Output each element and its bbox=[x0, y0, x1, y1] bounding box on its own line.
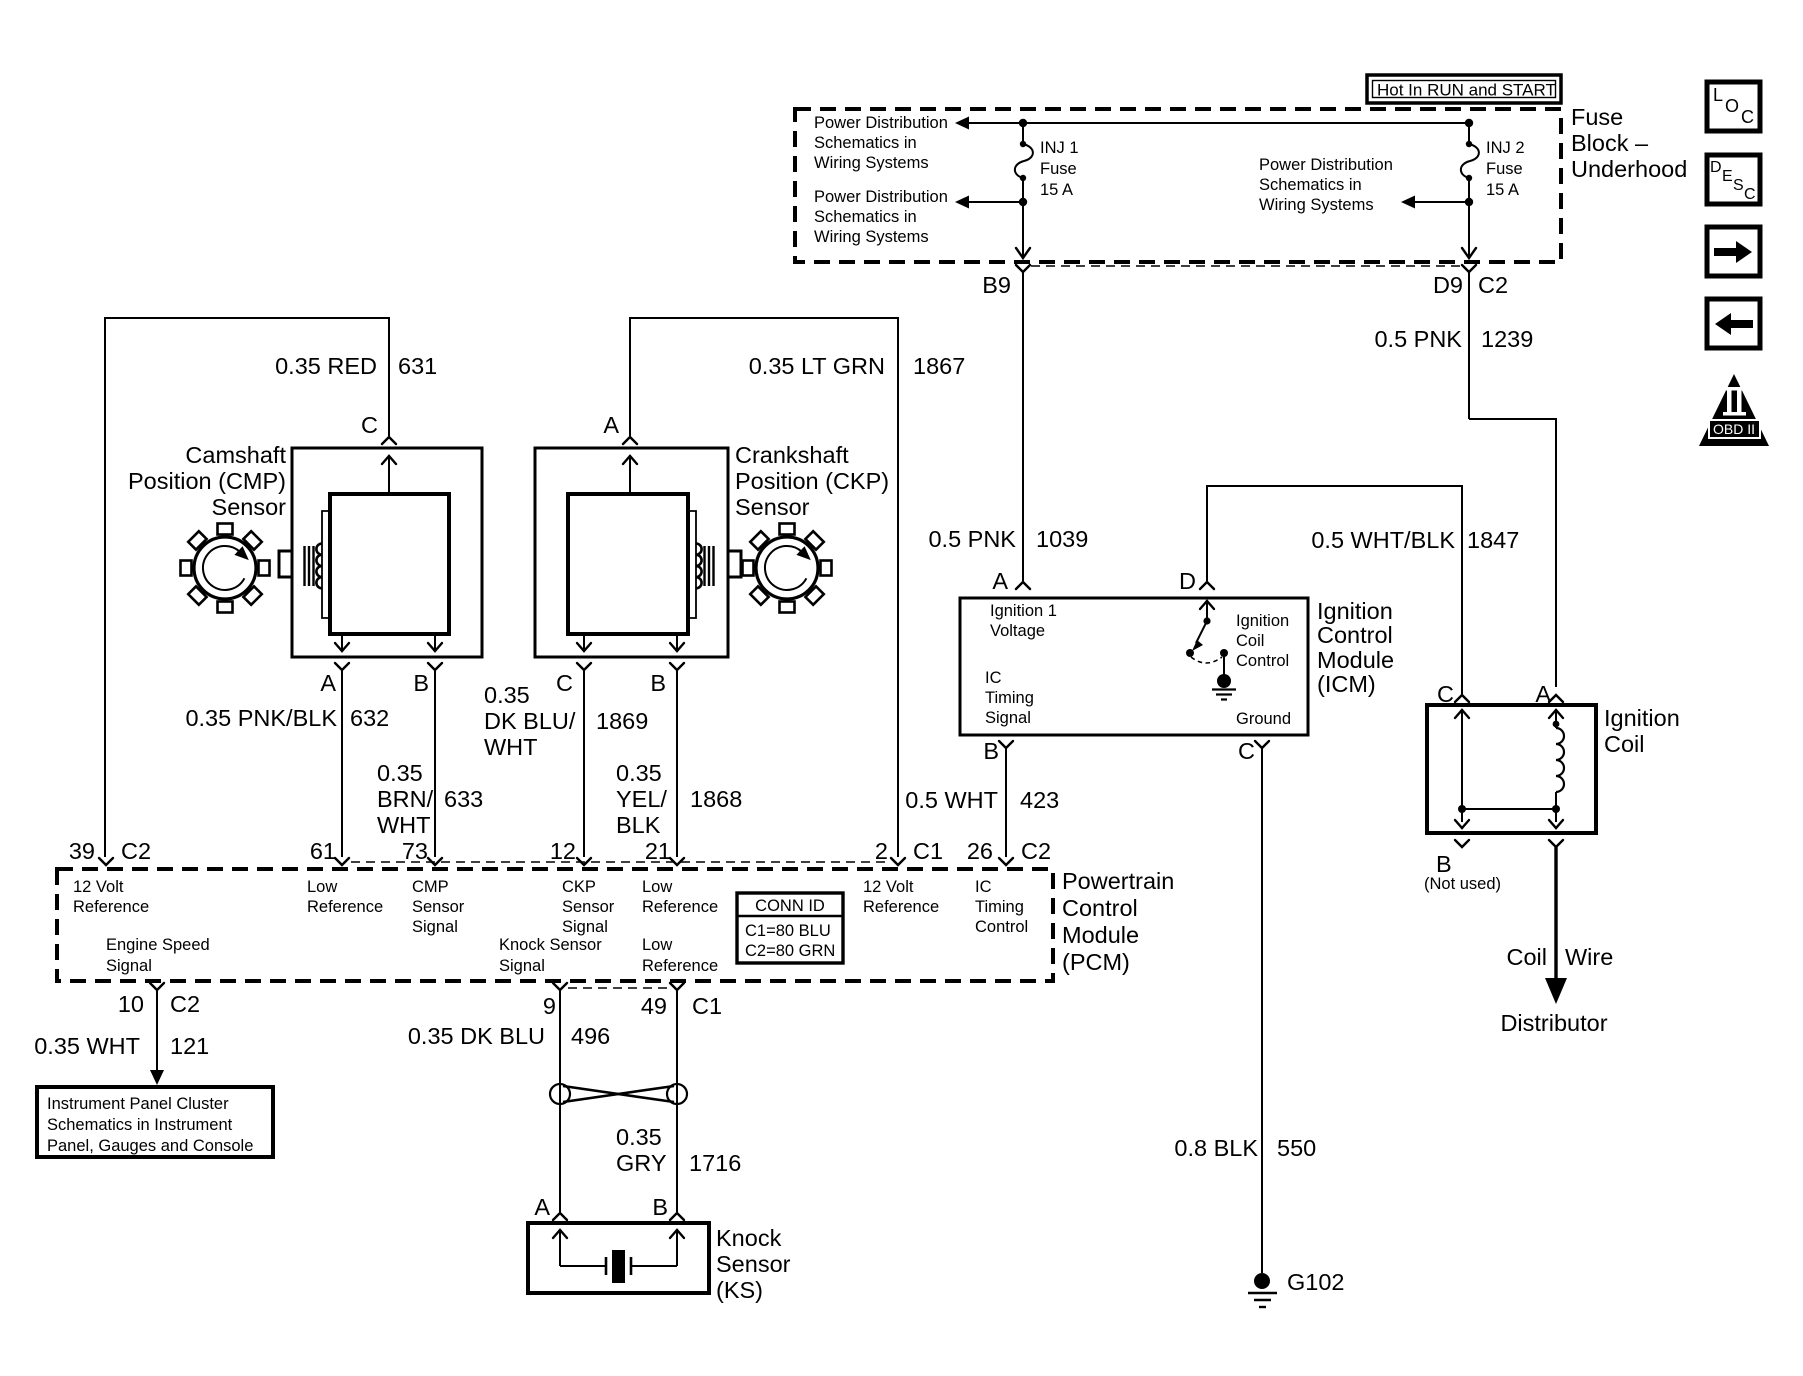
label Crankshaft Position CKP Sensor bbox=[735, 442, 889, 520]
connector B below CMP bbox=[413, 663, 442, 696]
svg-text:E: E bbox=[1722, 168, 1733, 185]
svg-text:Hot In RUN and START: Hot In RUN and START bbox=[1377, 81, 1556, 100]
svg-text:C2: C2 bbox=[170, 991, 200, 1017]
svg-text:L: L bbox=[1713, 85, 1723, 105]
svg-text:DK BLU/: DK BLU/ bbox=[484, 708, 576, 734]
pin 10 C2 below PCM bbox=[118, 983, 200, 1017]
svg-text:(Not used): (Not used) bbox=[1424, 875, 1501, 893]
connector A of CKP bbox=[603, 412, 637, 444]
wire 633 BRN/WHT CMP B to PCM 73 bbox=[377, 670, 483, 857]
svg-text:(PCM): (PCM) bbox=[1062, 949, 1130, 975]
svg-text:Low: Low bbox=[642, 936, 672, 954]
svg-text:C: C bbox=[361, 412, 378, 438]
text PCM CMP Sensor Signal bbox=[412, 878, 465, 936]
connector C below CKP bbox=[556, 663, 591, 696]
svg-text:0.5 PNK: 0.5 PNK bbox=[1374, 326, 1462, 352]
svg-text:Fuse: Fuse bbox=[1486, 160, 1523, 178]
svg-text:Knock: Knock bbox=[716, 1225, 782, 1251]
svg-text:0.35 DK BLU: 0.35 DK BLU bbox=[408, 1023, 545, 1049]
CMP pickup coil bbox=[305, 511, 331, 618]
connector C of ignition coil bbox=[1437, 681, 1469, 707]
svg-text:Schematics in: Schematics in bbox=[1259, 176, 1362, 194]
text PCM CKP Sensor Signal bbox=[562, 878, 615, 936]
svg-text:Power Distribution: Power Distribution bbox=[814, 188, 948, 206]
ICM internal ground bbox=[1212, 674, 1236, 700]
svg-text:CONN ID: CONN ID bbox=[755, 897, 825, 915]
text ICM Ignition 1 Voltage bbox=[990, 602, 1057, 640]
label box Hot In RUN and START bbox=[1367, 75, 1561, 103]
svg-text:CMP: CMP bbox=[412, 878, 449, 896]
CKP reluctor gear icon bbox=[743, 524, 832, 613]
svg-text:1847: 1847 bbox=[1467, 527, 1519, 553]
svg-text:Sensor: Sensor bbox=[562, 898, 615, 916]
svg-text:A: A bbox=[320, 670, 336, 696]
CKP sensor outer box bbox=[535, 448, 728, 657]
CONN ID table bbox=[737, 893, 843, 963]
svg-text:39: 39 bbox=[69, 838, 95, 864]
svg-text:Wiring Systems: Wiring Systems bbox=[814, 154, 929, 172]
svg-text:Reference: Reference bbox=[863, 898, 939, 916]
wire 1039 PNK B9 to ICM A bbox=[928, 272, 1088, 581]
CMP connector tab bbox=[279, 551, 292, 577]
text power distribution middle bbox=[1259, 156, 1393, 214]
svg-text:631: 631 bbox=[398, 353, 437, 379]
svg-text:21: 21 bbox=[645, 838, 671, 864]
text PCM IC Timing Control bbox=[975, 878, 1028, 936]
svg-text:Signal: Signal bbox=[499, 957, 545, 975]
svg-text:CKP: CKP bbox=[562, 878, 596, 896]
svg-text:IC: IC bbox=[985, 669, 1002, 687]
wire 1847 WHT/BLK ICM D to coil C bbox=[1207, 486, 1519, 694]
svg-text:Wiring Systems: Wiring Systems bbox=[814, 228, 929, 246]
svg-text:49: 49 bbox=[641, 993, 667, 1019]
coil wire to distributor bbox=[1500, 840, 1613, 1036]
svg-text:Crankshaft: Crankshaft bbox=[735, 442, 849, 468]
svg-text:C2: C2 bbox=[121, 838, 151, 864]
svg-text:61: 61 bbox=[310, 838, 336, 864]
svg-text:Schematics in: Schematics in bbox=[814, 134, 917, 152]
svg-text:C: C bbox=[1744, 186, 1756, 203]
wire 1867 LT GRN CKP A to PCM 2 bbox=[630, 318, 965, 857]
svg-text:121: 121 bbox=[170, 1033, 209, 1059]
svg-text:A: A bbox=[992, 568, 1008, 594]
svg-text:C: C bbox=[556, 670, 573, 696]
svg-text:INJ 2: INJ 2 bbox=[1486, 139, 1525, 157]
svg-text:Ignition: Ignition bbox=[1317, 598, 1393, 624]
svg-text:O: O bbox=[1725, 96, 1739, 116]
svg-text:(KS): (KS) bbox=[716, 1277, 763, 1303]
text PCM Low Reference 21 bbox=[642, 878, 718, 916]
label Powertrain Control Module PCM bbox=[1062, 868, 1174, 975]
connector C of CMP bbox=[361, 412, 396, 444]
text power distribution lower-left bbox=[814, 188, 948, 246]
wire INJ2 output down bbox=[1462, 202, 1476, 258]
CKP internal arrow down C bbox=[577, 634, 591, 651]
knock sensor box bbox=[528, 1223, 709, 1293]
wire 496 DK BLU PCM 9 to KS A bbox=[408, 990, 610, 1212]
svg-text:Underhood: Underhood bbox=[1571, 156, 1687, 182]
svg-text:15 A: 15 A bbox=[1040, 181, 1073, 199]
svg-text:9: 9 bbox=[543, 993, 556, 1019]
pin 39 C2 bbox=[69, 838, 151, 865]
svg-text:Knock Sensor: Knock Sensor bbox=[499, 936, 602, 954]
svg-text:Camshaft: Camshaft bbox=[185, 442, 286, 468]
svg-text:0.35: 0.35 bbox=[484, 682, 530, 708]
label Ignition Control Module ICM bbox=[1317, 598, 1394, 697]
svg-text:C2=80 GRN: C2=80 GRN bbox=[745, 942, 835, 960]
icon back arrow box bbox=[1707, 299, 1760, 348]
wire 1716 GRY PCM 49 to KS B bbox=[616, 990, 741, 1212]
wire 423 WHT ICM B to PCM 26 bbox=[905, 748, 1059, 857]
svg-text:73: 73 bbox=[402, 838, 428, 864]
svg-text:12 Volt: 12 Volt bbox=[863, 878, 914, 896]
svg-text:632: 632 bbox=[350, 705, 389, 731]
text PCM Knock Sensor Signal bbox=[499, 936, 602, 975]
connector B of ICM bbox=[983, 738, 1013, 764]
icon OBD II triangle bbox=[1699, 374, 1769, 446]
svg-text:10: 10 bbox=[118, 991, 144, 1017]
svg-text:Signal: Signal bbox=[106, 957, 152, 975]
svg-text:Module: Module bbox=[1317, 647, 1394, 673]
svg-text:BRN/: BRN/ bbox=[377, 786, 434, 812]
CKP internal signal arrow up bbox=[623, 456, 637, 494]
text INJ2 fuse label bbox=[1486, 139, 1525, 199]
pin 12 bbox=[550, 838, 591, 865]
knock sensor piezo element bbox=[553, 1230, 684, 1283]
coil internal bottom link bbox=[1462, 808, 1556, 810]
wire 550 BLK ICM C to G102 bbox=[1174, 748, 1316, 1273]
svg-text:Control: Control bbox=[1062, 895, 1138, 921]
svg-text:Instrument Panel Cluster: Instrument Panel Cluster bbox=[47, 1095, 229, 1113]
svg-text:0.35: 0.35 bbox=[616, 1124, 662, 1150]
connector A of ignition coil bbox=[1535, 681, 1563, 707]
wire 1868 YEL/BLK CKP B to PCM 21 bbox=[616, 670, 742, 857]
svg-text:B: B bbox=[413, 670, 429, 696]
ignition coil box bbox=[1427, 705, 1596, 833]
svg-text:C2: C2 bbox=[1021, 838, 1051, 864]
ICM internal switch bbox=[1186, 601, 1228, 676]
node bus-INJ1 junction bbox=[1019, 119, 1027, 127]
svg-text:Schematics in: Schematics in bbox=[814, 208, 917, 226]
svg-text:B: B bbox=[1436, 851, 1452, 877]
svg-text:Fuse: Fuse bbox=[1571, 104, 1623, 130]
wire hot bus bbox=[955, 117, 1469, 130]
instrument panel cluster box bbox=[37, 1087, 273, 1157]
pin 2 C1 bbox=[875, 838, 943, 865]
svg-text:D9: D9 bbox=[1433, 272, 1463, 298]
CKP pickup coil bbox=[688, 511, 714, 618]
svg-text:1867: 1867 bbox=[913, 353, 965, 379]
connector D of ICM bbox=[1179, 568, 1214, 594]
svg-text:Timing: Timing bbox=[985, 689, 1034, 707]
svg-text:1868: 1868 bbox=[690, 786, 742, 812]
svg-text:Schematics in Instrument: Schematics in Instrument bbox=[47, 1116, 233, 1134]
icon LOC box bbox=[1707, 82, 1760, 131]
svg-text:Block –: Block – bbox=[1571, 130, 1649, 156]
svg-text:C1: C1 bbox=[692, 993, 722, 1019]
text PCM 12 Volt Reference right bbox=[863, 878, 939, 916]
label Fuse Block Underhood bbox=[1571, 104, 1687, 182]
icon next arrow box bbox=[1707, 227, 1760, 276]
label Knock Sensor KS bbox=[716, 1225, 791, 1303]
svg-text:423: 423 bbox=[1020, 787, 1059, 813]
svg-text:Position (CKP): Position (CKP) bbox=[735, 468, 889, 494]
svg-text:C1=80 BLU: C1=80 BLU bbox=[745, 922, 831, 940]
coil primary winding bbox=[1549, 710, 1564, 828]
svg-text:(ICM): (ICM) bbox=[1317, 671, 1376, 697]
CMP internal arrow down A bbox=[335, 634, 349, 651]
connector link dashed pins 9-49 bbox=[568, 987, 670, 989]
fuse block underhood dashed box bbox=[795, 109, 1561, 262]
svg-text:Reference: Reference bbox=[307, 898, 383, 916]
CMP internal signal arrow up bbox=[382, 456, 396, 494]
pin 9 below PCM bbox=[543, 983, 567, 1019]
svg-text:Control: Control bbox=[1317, 622, 1393, 648]
svg-text:OBD II: OBD II bbox=[1713, 421, 1755, 437]
svg-text:496: 496 bbox=[571, 1023, 610, 1049]
text PCM 12 Volt Reference left bbox=[73, 878, 149, 916]
connector B9 bbox=[982, 265, 1030, 298]
pin 73 bbox=[402, 838, 442, 865]
svg-text:Fuse: Fuse bbox=[1040, 160, 1077, 178]
svg-text:Panel, Gauges and Console: Panel, Gauges and Console bbox=[47, 1137, 253, 1155]
svg-text:WHT: WHT bbox=[484, 734, 538, 760]
svg-text:B: B bbox=[652, 1194, 668, 1220]
text ICM IC Timing Signal bbox=[985, 669, 1034, 727]
text PCM Engine Speed Signal bbox=[106, 936, 210, 975]
svg-text:Powertrain: Powertrain bbox=[1062, 868, 1174, 894]
svg-text:S: S bbox=[1733, 177, 1744, 194]
svg-text:Reference: Reference bbox=[642, 957, 718, 975]
svg-text:2: 2 bbox=[875, 838, 888, 864]
text INJ1 fuse label bbox=[1040, 139, 1079, 199]
svg-text:A: A bbox=[534, 1194, 550, 1220]
svg-text:BLK: BLK bbox=[616, 812, 661, 838]
svg-text:Wire: Wire bbox=[1565, 944, 1613, 970]
CKP internal arrow down B bbox=[670, 634, 684, 651]
svg-text:550: 550 bbox=[1277, 1135, 1316, 1161]
svg-text:INJ 1: INJ 1 bbox=[1040, 139, 1079, 157]
CKP sensor inner box bbox=[568, 494, 688, 634]
svg-text:C2: C2 bbox=[1478, 272, 1508, 298]
svg-text:Control: Control bbox=[1236, 652, 1289, 670]
text PCM Low Reference 61 bbox=[307, 878, 383, 916]
svg-text:Wiring Systems: Wiring Systems bbox=[1259, 196, 1374, 214]
wire INJ2 branch arrow bbox=[1401, 196, 1473, 209]
svg-text:0.35: 0.35 bbox=[377, 760, 423, 786]
coil C internal branch bbox=[1455, 710, 1469, 828]
svg-text:B: B bbox=[650, 670, 666, 696]
svg-text:Engine Speed: Engine Speed bbox=[106, 936, 210, 954]
pin 21 bbox=[645, 838, 684, 865]
svg-text:15 A: 15 A bbox=[1486, 181, 1519, 199]
pin 49 C1 below PCM bbox=[641, 983, 722, 1019]
svg-text:0.35 PNK/BLK: 0.35 PNK/BLK bbox=[185, 705, 337, 731]
ICM box bbox=[960, 598, 1308, 735]
icon DESC box bbox=[1707, 155, 1760, 204]
connector B below CKP bbox=[650, 663, 684, 696]
CMP sensor inner box bbox=[330, 494, 449, 634]
svg-text:Low: Low bbox=[307, 878, 337, 896]
svg-text:0.5 WHT/BLK: 0.5 WHT/BLK bbox=[1311, 527, 1455, 553]
CMP reluctor gear icon bbox=[181, 524, 270, 613]
connector C of ICM bbox=[1238, 738, 1269, 764]
svg-text:Reference: Reference bbox=[642, 898, 718, 916]
svg-text:C: C bbox=[1238, 738, 1255, 764]
connector A of knock sensor bbox=[534, 1194, 567, 1220]
connector A below CMP bbox=[320, 663, 349, 696]
svg-text:Distributor: Distributor bbox=[1500, 1010, 1607, 1036]
svg-text:Control: Control bbox=[975, 918, 1028, 936]
label Ignition Coil bbox=[1604, 705, 1680, 757]
svg-text:Ignition: Ignition bbox=[1236, 612, 1289, 630]
text power distribution upper-left bbox=[814, 114, 948, 172]
twisted pair symbol bbox=[550, 1084, 687, 1104]
connector dashed link B9-D9 bbox=[1031, 265, 1461, 267]
svg-text:B9: B9 bbox=[982, 272, 1011, 298]
svg-text:Sensor: Sensor bbox=[212, 494, 287, 520]
connector D9 C2 bbox=[1433, 265, 1508, 298]
svg-text:633: 633 bbox=[444, 786, 483, 812]
wire 632 PNK/BLK CMP A to PCM 61 bbox=[185, 670, 389, 857]
svg-text:D: D bbox=[1710, 159, 1722, 176]
fuse INJ2 15A bbox=[1461, 123, 1479, 202]
svg-text:12 Volt: 12 Volt bbox=[73, 878, 124, 896]
svg-text:0.5 WHT: 0.5 WHT bbox=[905, 787, 998, 813]
svg-text:B: B bbox=[983, 738, 999, 764]
svg-text:A: A bbox=[603, 412, 619, 438]
svg-text:1239: 1239 bbox=[1481, 326, 1533, 352]
svg-text:0.35 RED: 0.35 RED bbox=[275, 353, 377, 379]
svg-text:IC: IC bbox=[975, 878, 992, 896]
svg-text:0.8 BLK: 0.8 BLK bbox=[1174, 1135, 1258, 1161]
svg-text:0.35 LT GRN: 0.35 LT GRN bbox=[749, 353, 885, 379]
wire INJ1 branch arrow bbox=[955, 196, 1027, 209]
wire 121 WHT to instrument cluster bbox=[34, 990, 209, 1085]
text ICM Ignition Coil Control bbox=[1236, 612, 1289, 670]
svg-text:Low: Low bbox=[642, 878, 672, 896]
connector link dashed PCM top bbox=[351, 861, 888, 863]
svg-text:YEL/: YEL/ bbox=[616, 786, 667, 812]
svg-text:1039: 1039 bbox=[1036, 526, 1088, 552]
text PCM Low Reference 49 bbox=[642, 936, 718, 975]
svg-text:Coil: Coil bbox=[1604, 731, 1644, 757]
svg-text:Ground: Ground bbox=[1236, 710, 1291, 728]
connector A of ICM bbox=[992, 568, 1030, 594]
svg-text:WHT: WHT bbox=[377, 812, 431, 838]
svg-text:Sensor: Sensor bbox=[735, 494, 810, 520]
CKP connector tab bbox=[728, 551, 741, 577]
svg-text:Power Distribution: Power Distribution bbox=[814, 114, 948, 132]
fuse INJ1 15A bbox=[1015, 123, 1033, 202]
svg-text:Signal: Signal bbox=[985, 709, 1031, 727]
svg-text:0.35: 0.35 bbox=[616, 760, 662, 786]
svg-text:Timing: Timing bbox=[975, 898, 1024, 916]
pin 61 bbox=[310, 838, 349, 865]
svg-text:Voltage: Voltage bbox=[990, 622, 1045, 640]
svg-text:Sensor: Sensor bbox=[412, 898, 465, 916]
svg-text:Coil: Coil bbox=[1236, 632, 1264, 650]
ground G102 bbox=[1248, 1269, 1345, 1307]
PCM dashed box bbox=[57, 869, 1053, 981]
label Camshaft Position CMP Sensor bbox=[128, 442, 286, 520]
svg-text:Signal: Signal bbox=[412, 918, 458, 936]
connector B of knock sensor bbox=[652, 1194, 684, 1220]
wire INJ1 output down bbox=[1016, 202, 1030, 258]
svg-text:Sensor: Sensor bbox=[716, 1251, 791, 1277]
svg-text:0.5 PNK: 0.5 PNK bbox=[928, 526, 1016, 552]
svg-text:Reference: Reference bbox=[73, 898, 149, 916]
svg-text:Power Distribution: Power Distribution bbox=[1259, 156, 1393, 174]
CMP sensor outer box bbox=[292, 448, 482, 657]
svg-text:1869: 1869 bbox=[596, 708, 648, 734]
svg-text:GRY: GRY bbox=[616, 1150, 667, 1176]
svg-text:12: 12 bbox=[550, 838, 576, 864]
svg-text:D: D bbox=[1179, 568, 1196, 594]
CMP internal arrow down B bbox=[428, 634, 442, 651]
svg-text:C1: C1 bbox=[913, 838, 943, 864]
svg-text:Module: Module bbox=[1062, 922, 1139, 948]
svg-text:Signal: Signal bbox=[562, 918, 608, 936]
wire 1239 PNK D9 to ignition coil A bbox=[1374, 272, 1556, 687]
svg-text:0.35 WHT: 0.35 WHT bbox=[34, 1033, 140, 1059]
node bus-INJ2 junction bbox=[1465, 119, 1473, 127]
svg-text:Ignition: Ignition bbox=[1604, 705, 1680, 731]
svg-text:26: 26 bbox=[967, 838, 993, 864]
wire 631 RED CMP C to PCM 39 bbox=[105, 318, 437, 857]
svg-text:C: C bbox=[1741, 107, 1754, 127]
wire 1869 DK BLU/WHT CKP C to PCM 12 bbox=[484, 670, 648, 857]
svg-text:Ignition 1: Ignition 1 bbox=[990, 602, 1057, 620]
svg-text:G102: G102 bbox=[1287, 1269, 1345, 1295]
svg-text:1716: 1716 bbox=[689, 1150, 741, 1176]
svg-text:Coil: Coil bbox=[1507, 944, 1547, 970]
svg-text:Position (CMP): Position (CMP) bbox=[128, 468, 286, 494]
connector B of ignition coil not used bbox=[1424, 840, 1501, 893]
pin 26 C2 bbox=[967, 838, 1051, 865]
